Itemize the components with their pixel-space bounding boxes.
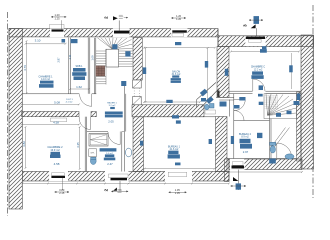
chips near right wall (294, 94, 301, 106)
dimension line chambre BL inner vertical (76, 126, 81, 170)
dimension line chambre TL vertical (23, 40, 28, 94)
wall V7 hatched (right of salle d'eau) (133, 117, 144, 172)
svg-text:4.58: 4.58 (54, 162, 60, 166)
salle d'eau room label (100, 148, 117, 166)
door arc into bureau2 (234, 111, 244, 121)
salon room label (171, 70, 181, 83)
wc toilet mid corridor (205, 104, 215, 110)
svg-text:2.15: 2.15 (59, 191, 65, 195)
label box at mid wc (205, 110, 216, 114)
svg-text:WPL: WPL (91, 153, 95, 155)
wc toilet bottom right (270, 142, 276, 153)
svg-text:2.87: 2.87 (57, 57, 61, 63)
door opening D1 in band A (113, 28, 130, 37)
opening O3 bottom wall (165, 171, 192, 182)
opening O2 bottom wall with black sill (105, 171, 129, 182)
dimension line corridor 5.08 (21, 101, 80, 106)
svg-text:8.9 m2: 8.9 m2 (241, 136, 249, 139)
diagonal corridor wall (197, 83, 220, 108)
chips on diagonal wall (200, 89, 227, 107)
svg-text:2.47: 2.47 (107, 162, 113, 166)
dimension line chambre TL horizontal (25, 39, 67, 45)
salle d'eau north wall (87, 131, 108, 133)
flue box upper (133, 80, 142, 88)
partition west of salle d'eau (85, 117, 87, 172)
bureau2 north wall (234, 120, 270, 122)
chip below window W3 (262, 46, 267, 49)
main stair winder fan (98, 38, 133, 49)
svg-text:3.35: 3.35 (76, 142, 80, 148)
main stair right flight treads (119, 51, 133, 67)
bureau2 / wc-room south face line (227, 158, 297, 160)
left exterior wall hatched (9, 29, 22, 209)
chips right wing corridor (234, 94, 264, 109)
main stair left flight treads (96, 51, 106, 66)
sink bottom right (285, 154, 294, 159)
section marker 2 bottom (103, 181, 128, 193)
duct wall above salle d'eau (124, 84, 125, 132)
dimension line salon right vertical (205, 47, 209, 101)
stair masonry dark blob (96, 66, 105, 76)
section marker 3 top (242, 16, 263, 36)
right wing bottom dimension line (228, 171, 303, 173)
main stair lower flight treads (96, 49, 106, 84)
rotated dim on stair west wall (91, 55, 95, 61)
window opening W2 in band A (171, 28, 188, 37)
rotated dim on V1 wall (68, 54, 72, 59)
svg-text:5.08: 5.08 (54, 101, 60, 105)
chip bureau2 inner (257, 133, 262, 138)
svg-text:2.05: 2.05 (108, 119, 114, 123)
dimension chips bureau1 (140, 120, 212, 165)
property line left (dash-dot) (7, 12, 9, 216)
shower tray salle d'eau (89, 134, 108, 147)
door arc chambre C (253, 79, 265, 91)
svg-text:1.62: 1.62 (76, 85, 82, 89)
door arc corridor left (door in H2) (80, 94, 92, 106)
window opening W1 in band A (50, 24, 65, 37)
window annotation bottom left (55, 188, 69, 195)
svg-text:3.82: 3.82 (22, 141, 26, 147)
wc-room under-stair diagonals (272, 128, 290, 152)
bureau2 room label (231, 133, 252, 154)
door arc wc-room (277, 143, 292, 158)
small chips near top wall (62, 39, 78, 43)
bottom wall right wing hatched (229, 159, 302, 170)
dimension line closet (69, 85, 90, 90)
chips right winder stair (276, 111, 292, 117)
svg-text:1.09: 1.09 (91, 55, 95, 61)
closet room label (72, 65, 86, 80)
dimension line salon bottom (143, 100, 201, 103)
corridor wall H2 (22, 93, 97, 95)
bureau2 east wall (270, 96, 272, 158)
svg-text:3.2 m2: 3.2 m2 (109, 105, 116, 107)
opening O4 right wing bottom wall (230, 159, 245, 170)
opening O1 bottom wall (49, 171, 68, 190)
salle d'eau east wall double line + duct slot (122, 132, 125, 172)
window annotation bottom middle (169, 188, 187, 195)
main stair void (106, 49, 119, 67)
right winder stair fan (266, 94, 296, 115)
interior wall H1a hatched (22, 112, 97, 122)
right wing corridor west walls (229, 94, 234, 159)
washbasin box salle d'eau (89, 149, 97, 157)
flue box lower (133, 97, 142, 105)
wall V4b hatched (right of bureau1) (216, 117, 228, 172)
chambre C room label (251, 66, 266, 79)
dimension chip chambre C right rotated (289, 53, 293, 89)
door arc salle d'eau (108, 132, 120, 145)
dimension line salon left vertical (143, 47, 147, 103)
svg-text:2.11: 2.11 (68, 54, 72, 59)
door arc H1a into chambre BL (79, 117, 90, 130)
corridor DGT label (66, 99, 74, 104)
wall top facade band B hatched (right recessed) (218, 29, 314, 47)
partition V1 (chambre TL / closet) (69, 38, 71, 94)
chip on H1b (172, 115, 179, 118)
wc toilet salle d'eau (90, 157, 96, 164)
global bottom dimension line (21, 183, 230, 185)
rotated dim inside chambre TL right (57, 57, 61, 63)
property line right (dash-dot) (312, 5, 314, 198)
salon east wall V4a hatched (217, 47, 229, 98)
stair-salon wall V3 hatched (133, 38, 142, 81)
demolished stair grid texture (265, 95, 279, 109)
palier label block (107, 102, 117, 110)
bureau1 bottom dim line (144, 168, 216, 170)
pedestal sink in duct slot (126, 148, 132, 157)
svg-text:12.2 m2: 12.2 m2 (254, 68, 263, 71)
section marker 2 top (104, 15, 128, 30)
svg-text:2.97: 2.97 (243, 150, 249, 154)
stair chips (112, 44, 130, 86)
svg-text:SDB 1: SDB 1 (76, 65, 84, 68)
window annotation top left (51, 13, 66, 29)
wall top facade band A hatched (9, 29, 218, 37)
window opening W3 in band B (245, 36, 265, 46)
interior wall H1b hatched (132, 105, 216, 117)
dimension line chambre C horizontal (230, 49, 300, 53)
chambre TL room label (39, 76, 54, 88)
salle d'eau top chips (105, 112, 123, 124)
section marker 3 bottom (231, 170, 246, 191)
chambre BL room label (47, 145, 63, 158)
svg-text:13.9 m2: 13.9 m2 (50, 148, 60, 152)
main stair west wall (94, 38, 96, 94)
right exterior wall hatched (297, 35, 314, 169)
svg-text:3.10: 3.10 (35, 39, 41, 43)
dimension chip chambre C left rotated (225, 69, 229, 76)
step connector wall hatched (225, 159, 230, 182)
bureau1 room label (168, 146, 181, 159)
chip right of salon corridor (201, 98, 206, 102)
passage lines south of V4a (216, 97, 234, 100)
dimension line chambre BL horizontal (21, 121, 80, 126)
dimension line salon top (143, 42, 216, 49)
right wing wall H3 (south of chambre C) (229, 91, 301, 94)
svg-text:4.76: 4.76 (23, 65, 27, 71)
svg-text:4.58: 4.58 (53, 121, 59, 125)
door arc right wing corridor (234, 99, 245, 110)
svg-text:1.05: 1.05 (175, 191, 181, 195)
svg-text:4.1 m2: 4.1 m2 (66, 101, 73, 103)
dimension line chambre BL vertical (22, 126, 27, 169)
right winder stair outline (264, 94, 297, 119)
flue dashed channel (134, 88, 139, 97)
chip right wing bottom band (269, 159, 276, 164)
partition V2 (closet / stair hall) (88, 38, 90, 94)
bottom wall left section hatched (22, 172, 229, 182)
dimension text 4.55 chambre BL (54, 162, 60, 166)
window annotation top middle (171, 14, 185, 21)
